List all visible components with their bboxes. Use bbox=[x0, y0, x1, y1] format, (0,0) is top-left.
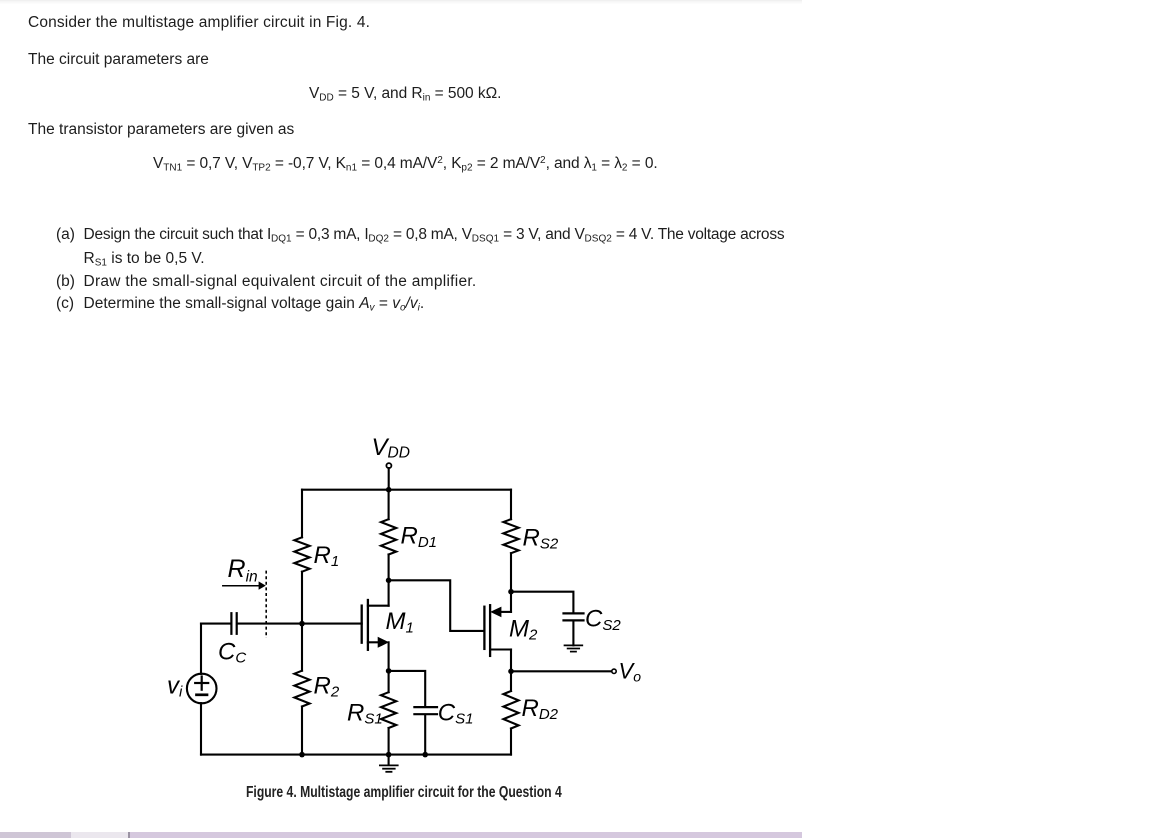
capacitor CS1 bbox=[414, 707, 437, 714]
svg-text:CS2: CS2 bbox=[585, 606, 621, 634]
wire RD2 bottom bbox=[510, 729, 512, 755]
svg-text:R1: R1 bbox=[314, 542, 340, 570]
transistor M2 (PMOS) bbox=[484, 605, 511, 656]
power terminal VDD bbox=[386, 463, 391, 468]
wire RD1 top bbox=[388, 490, 390, 520]
wire RS2 bottom bbox=[510, 553, 512, 592]
node top-rail junction bbox=[386, 487, 392, 493]
wire CS2 branch bbox=[511, 592, 573, 613]
node R2 rail bbox=[299, 752, 305, 758]
svg-text:RS1: RS1 bbox=[347, 699, 383, 727]
paragraph text bbox=[28, 15, 370, 31]
wire vi bottom bbox=[200, 703, 202, 755]
node M1 source bbox=[386, 668, 392, 674]
resistor R1 bbox=[294, 537, 309, 571]
capacitor CS2 bbox=[564, 613, 584, 620]
terminal Vo bbox=[612, 669, 616, 673]
wire CS1 branch bbox=[389, 671, 426, 706]
wire VDD stem bbox=[388, 468, 390, 490]
wire CS2 stem bbox=[572, 621, 574, 645]
wire R2 bottom bbox=[301, 707, 303, 755]
wire RS1 bottom bbox=[388, 728, 390, 755]
wire top rail bbox=[302, 489, 511, 491]
svg-text:CS1: CS1 bbox=[438, 699, 474, 727]
wire R2 top bbox=[301, 624, 303, 671]
svg-text:CC: CC bbox=[218, 639, 246, 667]
wire M2 drain vertical bbox=[510, 650, 512, 672]
wire vi top bbox=[200, 624, 202, 674]
node gate bbox=[299, 621, 305, 627]
wire input left (vi to CC) bbox=[201, 623, 230, 625]
svg-text:Vo: Vo bbox=[619, 659, 642, 685]
svg-text:vi: vi bbox=[167, 672, 183, 700]
node RS1 rail bbox=[386, 752, 392, 758]
wire RS1 top bbox=[388, 671, 390, 692]
wire M2 source vertical bbox=[510, 592, 512, 612]
wire R1 bottom bbox=[301, 572, 303, 624]
resistor RS2 bbox=[503, 519, 518, 553]
wire R1 top bbox=[301, 490, 303, 538]
list items bbox=[56, 227, 75, 243]
bottom lavender band (window artifact) bbox=[0, 832, 71, 838]
figure caption bbox=[246, 785, 562, 801]
resistor RD2 bbox=[503, 691, 518, 729]
wire RD1 bottom bbox=[388, 555, 390, 581]
resistor R2 bbox=[294, 671, 309, 707]
svg-text:M2: M2 bbox=[509, 616, 538, 644]
top gray strip (window edge artifact) bbox=[0, 0, 802, 4]
svg-text:Rin: Rin bbox=[228, 555, 258, 586]
wire output bbox=[511, 670, 612, 672]
wire CS1 bottom bbox=[424, 715, 426, 754]
svg-text:RD1: RD1 bbox=[401, 523, 438, 551]
resistor RS1 bbox=[381, 692, 396, 728]
wire RS2 top bbox=[510, 490, 512, 520]
ground CS2 bbox=[565, 645, 583, 651]
svg-text:RD2: RD2 bbox=[522, 695, 559, 723]
svg-text:M1: M1 bbox=[386, 608, 414, 636]
wire RD2 top bbox=[510, 671, 512, 691]
wire M1 source vertical bbox=[388, 642, 390, 671]
wire input right (CC to M1 gate) bbox=[238, 623, 362, 625]
capacitor CC bbox=[231, 613, 236, 634]
transistor M1 (NMOS) bbox=[362, 600, 389, 650]
wire bottom rail bbox=[201, 754, 511, 756]
svg-text:VDD: VDD bbox=[372, 434, 410, 462]
node M1 drain bbox=[386, 578, 392, 584]
resistor RD1 bbox=[381, 519, 396, 554]
arrow Rin bbox=[223, 581, 266, 589]
boundary dashed line Rin bbox=[265, 571, 267, 638]
node output bbox=[508, 669, 514, 675]
ground main bbox=[380, 755, 398, 772]
svg-text:RS2: RS2 bbox=[523, 525, 559, 553]
source vi (independent voltage source) bbox=[187, 674, 217, 704]
node M2 source bbox=[508, 589, 514, 595]
wire M1-drain to M2-gate link bbox=[389, 580, 485, 631]
svg-text:R2: R2 bbox=[314, 673, 340, 701]
wire M1 drain vertical bbox=[388, 580, 390, 605]
node CS1 rail bbox=[422, 752, 428, 758]
